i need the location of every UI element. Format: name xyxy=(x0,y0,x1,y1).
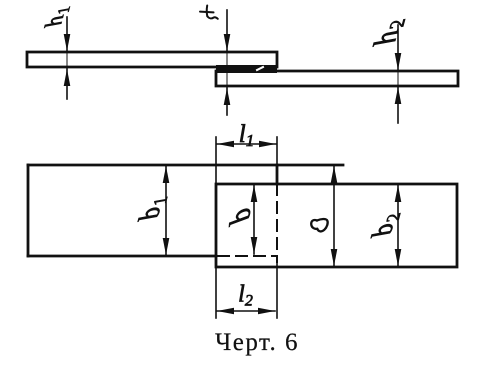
upper plate (side view) xyxy=(27,52,277,67)
dimension l1 xyxy=(217,141,276,148)
lower plate plan view outline xyxy=(216,184,457,267)
dimension t xyxy=(224,10,231,115)
dimension b xyxy=(251,185,258,254)
dimension B xyxy=(331,166,338,266)
label t xyxy=(200,6,218,19)
dimension b2 xyxy=(395,185,402,266)
extension line right (l1/l2) xyxy=(276,137,278,165)
dimension h2 xyxy=(395,25,402,123)
upper plate plan hidden edge bottom (dashed) xyxy=(218,255,277,257)
upper plate plan view solid outline xyxy=(28,165,343,256)
dimension h1 xyxy=(64,17,71,99)
dimension l2 xyxy=(217,308,275,315)
joint band white nick xyxy=(257,67,263,70)
dimension b1 xyxy=(163,166,170,255)
label B xyxy=(311,219,327,231)
upper plate plan hidden edge right (dashed) xyxy=(276,184,278,262)
overlap joint band xyxy=(216,65,277,73)
svg-text:Черт. 6: Черт. 6 xyxy=(215,329,299,356)
extension line left (l1/l2) xyxy=(215,137,217,184)
lower plate (side view) xyxy=(216,71,458,86)
